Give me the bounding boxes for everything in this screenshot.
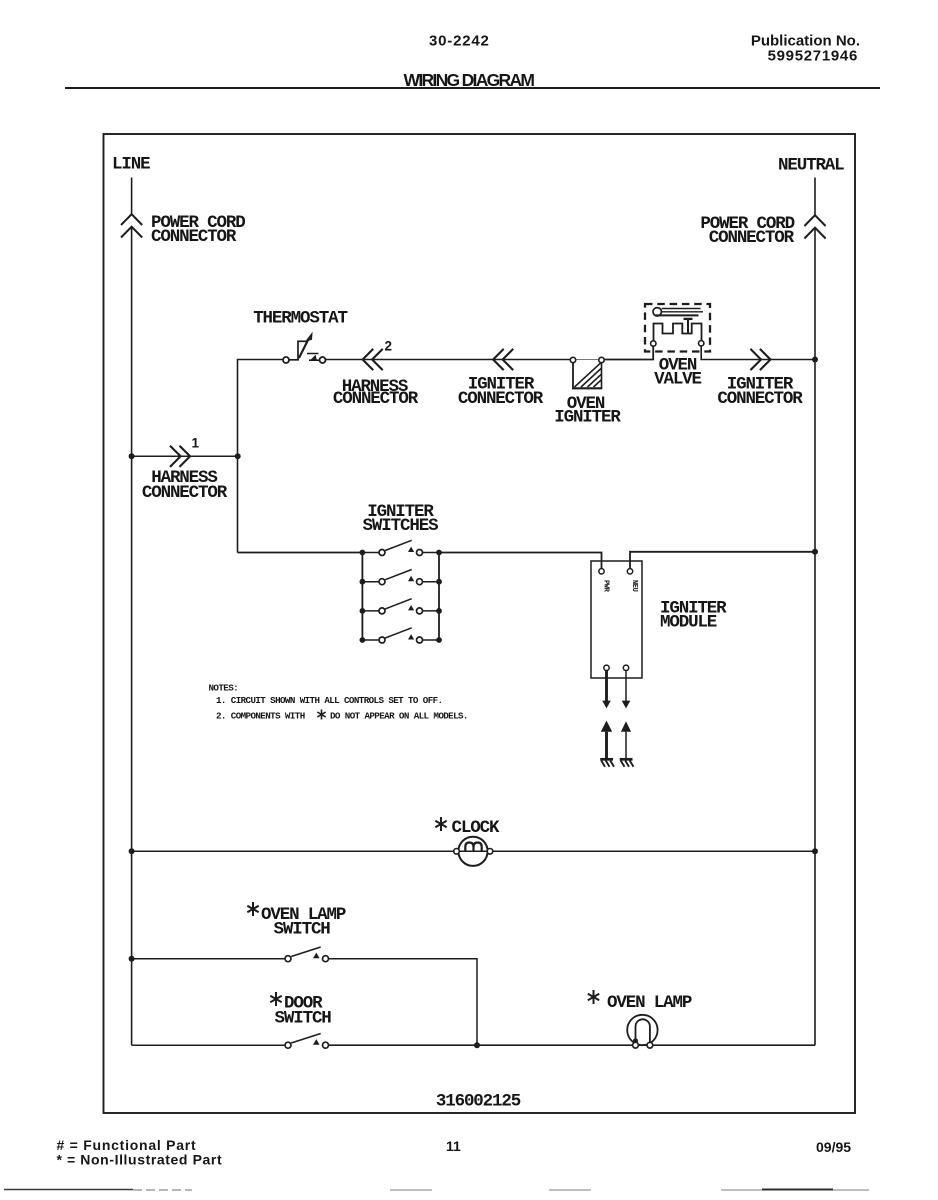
svg-text:THERMOSTAT: THERMOSTAT bbox=[253, 309, 347, 329]
igniter switch 3 bbox=[360, 599, 442, 614]
power cord connector left bbox=[121, 214, 142, 237]
wire oven lamp switch row bbox=[132, 958, 285, 960]
svg-text:5995271946: 5995271946 bbox=[768, 48, 858, 65]
wire module NEU to neutral bbox=[630, 552, 815, 569]
svg-text:CONNECTOR: CONNECTOR bbox=[709, 228, 795, 248]
svg-text:SWITCH: SWITCH bbox=[274, 920, 331, 940]
oven lamp bbox=[627, 1015, 657, 1048]
svg-text:* = Non-Illustrated Part: * = Non-Illustrated Part bbox=[57, 1152, 223, 1168]
wire harness branch bbox=[132, 455, 238, 457]
junction line-lampswitch bbox=[129, 956, 135, 962]
module bottom pin right bbox=[623, 665, 628, 670]
svg-text:CLOCK: CLOCK bbox=[452, 818, 500, 838]
wire LINE rail bbox=[131, 227, 133, 1045]
door switch bbox=[285, 1034, 329, 1049]
diagram border box bbox=[104, 134, 856, 1113]
harness connector 1 bbox=[170, 446, 190, 467]
igniter switches right rail bbox=[438, 553, 440, 641]
igniter module U1 bbox=[591, 561, 642, 678]
thermostat bbox=[283, 332, 326, 363]
svg-text:1: 1 bbox=[192, 436, 200, 451]
svg-text:2: 2 bbox=[385, 339, 393, 354]
igniter switch 4 bbox=[360, 628, 442, 643]
svg-text:DO NOT APPEAR ON ALL MODELS.: DO NOT APPEAR ON ALL MODELS. bbox=[330, 711, 468, 722]
svg-text:NOTES:: NOTES: bbox=[209, 683, 239, 694]
wire line rail to door switch bbox=[132, 1044, 285, 1046]
clock asterisk bbox=[435, 817, 446, 831]
svg-text:1. CIRCUIT SHOWN WITH ALL CONT: 1. CIRCUIT SHOWN WITH ALL CONTROLS SET T… bbox=[216, 695, 442, 706]
svg-text:30-2242: 30-2242 bbox=[429, 33, 490, 50]
svg-text:CONNECTOR: CONNECTOR bbox=[333, 389, 419, 409]
pin NEU bbox=[627, 569, 632, 574]
svg-text:11: 11 bbox=[446, 1138, 461, 1154]
spark lead right down arrow bbox=[622, 671, 631, 709]
junction lampswitch-doorrow bbox=[474, 1042, 480, 1048]
footer rule bbox=[4, 1189, 869, 1192]
wire NEUTRAL rail bbox=[814, 228, 816, 1045]
igniter switch 2 bbox=[360, 570, 442, 585]
oven igniter bbox=[570, 357, 604, 388]
igniter switches left rail bbox=[361, 553, 363, 641]
wire lampswitch to door row bbox=[329, 959, 478, 1045]
svg-text:NEU: NEU bbox=[630, 580, 638, 592]
svg-text:2. COMPONENTS WITH: 2. COMPONENTS WITH bbox=[216, 711, 305, 722]
junction line-harness bbox=[129, 453, 135, 459]
wire valve to neutral bbox=[701, 359, 815, 361]
wire riser thermostat branch bbox=[238, 360, 284, 553]
ground lead right up arrow bbox=[621, 721, 631, 759]
harness connector 2 bbox=[363, 349, 383, 370]
wire igniter to valve bbox=[604, 359, 653, 361]
oven valve bbox=[645, 304, 710, 360]
junction valve-neutral bbox=[812, 357, 818, 363]
module bottom pin left bbox=[604, 665, 609, 670]
svg-text:CONNECTOR: CONNECTOR bbox=[151, 227, 237, 247]
oven lamp switch bbox=[285, 947, 329, 962]
oven lamp asterisk bbox=[588, 990, 599, 1004]
svg-text:IGNITER: IGNITER bbox=[554, 408, 621, 428]
wire switches to module PWR bbox=[439, 553, 602, 569]
wire riser to switches bbox=[238, 552, 363, 554]
wire door switch to oven lamp to neutral bbox=[329, 1044, 816, 1046]
svg-text:CONNECTOR: CONNECTOR bbox=[142, 483, 228, 503]
pin PWR bbox=[599, 569, 604, 574]
oven lamp switch asterisk bbox=[247, 902, 258, 916]
igniter switch 1 bbox=[360, 540, 442, 555]
svg-text:MODULE: MODULE bbox=[660, 613, 717, 633]
spark lead left down arrow bbox=[602, 671, 611, 709]
svg-text:CONNECTOR: CONNECTOR bbox=[458, 389, 544, 409]
svg-text:316002125: 316002125 bbox=[436, 1092, 521, 1112]
svg-text:SWITCH: SWITCH bbox=[275, 1009, 332, 1029]
svg-text:LINE: LINE bbox=[112, 155, 150, 175]
junction neutral-module bbox=[812, 549, 818, 555]
svg-text:WIRING DIAGRAM: WIRING DIAGRAM bbox=[404, 70, 535, 90]
junction clock-neutral bbox=[812, 848, 818, 854]
power cord connector right bbox=[804, 215, 825, 238]
wire LINE drop to connector bbox=[131, 178, 133, 215]
svg-text:VALVE: VALVE bbox=[654, 370, 701, 390]
ground symbol left bbox=[600, 759, 614, 767]
igniter connector right bbox=[750, 349, 770, 370]
wire clock row bbox=[132, 850, 815, 852]
junction line-clock bbox=[129, 848, 135, 854]
svg-text:CONNECTOR: CONNECTOR bbox=[717, 389, 803, 409]
junction harness-riser bbox=[235, 453, 241, 459]
wire thermostat to igniter bbox=[326, 359, 571, 361]
wire NEUTRAL drop to connector bbox=[814, 178, 816, 216]
svg-text:PWR: PWR bbox=[602, 580, 610, 593]
door switch asterisk bbox=[270, 992, 281, 1006]
svg-text:NEUTRAL: NEUTRAL bbox=[778, 156, 844, 176]
svg-text:09/95: 09/95 bbox=[816, 1139, 851, 1155]
clock bbox=[454, 837, 493, 866]
igniter connector left bbox=[493, 349, 513, 370]
ground symbol right bbox=[620, 759, 634, 767]
header rule bbox=[65, 87, 880, 89]
svg-text:OVEN LAMP: OVEN LAMP bbox=[607, 993, 692, 1013]
svg-text:SWITCHES: SWITCHES bbox=[363, 516, 439, 536]
ground lead left up arrow bbox=[601, 721, 612, 759]
